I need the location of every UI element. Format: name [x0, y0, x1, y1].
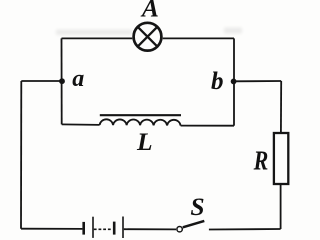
svg-text:L: L — [136, 127, 153, 156]
wire right inner vertical — [233, 38, 235, 125]
switch S pivot circle — [177, 227, 182, 232]
battery cell 2 negative plate (short thick) — [113, 222, 116, 235]
wire top-left segment — [62, 37, 133, 39]
svg-text:R: R — [253, 146, 269, 176]
switch S blade — [183, 221, 205, 227]
node a — [59, 78, 65, 84]
wire node a to left rail — [21, 80, 62, 82]
faint scan smudge above top-right corner — [224, 28, 242, 34]
wire top-right segment — [163, 37, 234, 39]
wire right rail to node b — [234, 80, 282, 82]
svg-text:S: S — [190, 192, 204, 221]
battery cell 1 positive plate (long thin) — [92, 217, 94, 238]
wire left inner vertical — [61, 38, 63, 124]
faint scan smudge left of lamp — [56, 30, 132, 36]
resistor R — [274, 133, 288, 184]
svg-text:A: A — [140, 0, 159, 22]
wire battery to switch — [124, 228, 176, 230]
svg-text:a: a — [72, 66, 84, 92]
battery cell 2 positive plate (long thin) — [122, 217, 124, 239]
battery cell 1 negative plate (short thick) — [82, 222, 85, 235]
wire right rail lower — [280, 185, 282, 230]
inductor core bar — [100, 114, 181, 116]
wire inner bottom left segment — [62, 123, 100, 126]
battery dashed link — [94, 228, 111, 230]
wire inner bottom right segment — [181, 125, 234, 127]
wire bottom-left segment to battery — [21, 228, 82, 230]
wire left rail — [20, 81, 22, 229]
inductor L coil — [100, 119, 181, 125]
wire right rail upper — [280, 81, 282, 133]
wire switch to bottom-right corner — [209, 228, 281, 231]
svg-text:b: b — [211, 68, 224, 95]
lamp A — [134, 23, 162, 51]
node b — [231, 79, 237, 85]
